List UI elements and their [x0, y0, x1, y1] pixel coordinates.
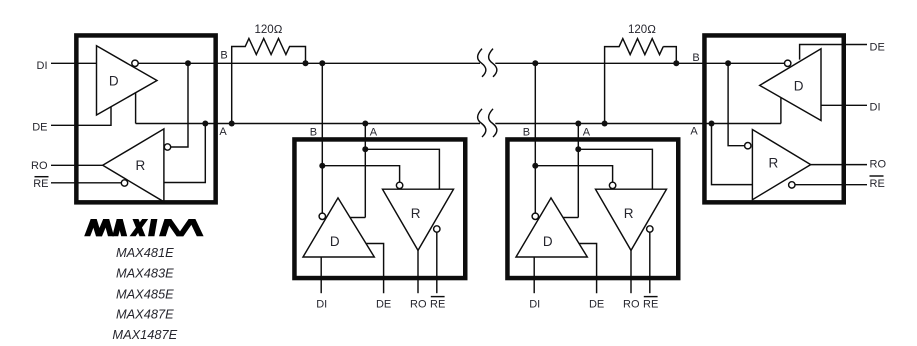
wire bus A right segment: [495, 123, 781, 125]
svg-text:DI: DI: [870, 102, 881, 114]
overline RE U4: [870, 175, 884, 177]
transceiver U3 group (copy of U2 shifted): [507, 60, 678, 310]
node R2 lead on bus A: [602, 121, 608, 127]
svg-text:120Ω: 120Ω: [628, 24, 656, 36]
node U4 B junction: [725, 60, 731, 66]
svg-text:B: B: [310, 126, 317, 138]
wire RE input U1: [51, 182, 121, 184]
overline RE pin U2: [431, 296, 445, 298]
svg-text:MAX487E: MAX487E: [116, 307, 174, 322]
svg-text:RE: RE: [33, 178, 48, 190]
node U4 A junction: [709, 121, 715, 127]
wire U4 RE: [795, 184, 867, 186]
wire U4 RO: [811, 164, 867, 166]
wire U1 internal A branch down to R: [164, 124, 205, 183]
driver D U2: [303, 198, 374, 257]
wire bus B right segment: [495, 62, 784, 64]
wire U1 D output A from slope to bus: [135, 93, 137, 124]
wire DE input U1: [51, 107, 111, 125]
svg-text:MAX1487E: MAX1487E: [112, 327, 177, 342]
wire bus A left segment: [136, 123, 480, 125]
wire U2 RO: [417, 250, 419, 293]
transceiver U1 box border: [76, 35, 215, 202]
receiver R U1: [103, 129, 164, 202]
logo letter M wide: [159, 219, 171, 236]
svg-text:120Ω: 120Ω: [254, 24, 282, 36]
transceiver U2 box border: [294, 139, 465, 278]
bubble U2 R input B: [396, 182, 402, 188]
receiver R U4: [752, 130, 810, 200]
svg-text:RO: RO: [870, 159, 887, 171]
node R2 lead on bus B: [673, 60, 679, 66]
svg-text:RO: RO: [410, 299, 427, 311]
node U2 B internal junction: [319, 163, 325, 169]
wire RO output U1: [51, 164, 103, 166]
driver D U1: [97, 46, 158, 115]
wire U2 RE: [436, 232, 438, 293]
break symbol on bus A: [478, 109, 497, 137]
wire DI input U1: [51, 62, 97, 64]
svg-text:A: A: [219, 126, 227, 138]
svg-text:DI: DI: [37, 60, 48, 72]
node R1 lead on bus A: [229, 121, 235, 127]
wire U4 A branch to R input: [712, 124, 753, 185]
svg-text:DE: DE: [32, 121, 47, 133]
logo letter X: [130, 219, 149, 236]
wire U2 A to R input: [365, 149, 439, 189]
bubble U4 D output B: [785, 60, 791, 66]
logo letter A: [112, 219, 123, 236]
svg-text:R: R: [411, 206, 421, 221]
svg-text:MAX485E: MAX485E: [116, 287, 174, 302]
logo letter I: [148, 219, 157, 236]
svg-text:RO: RO: [31, 160, 48, 172]
wire U2 B to R bubble: [322, 166, 399, 183]
svg-text:R: R: [769, 156, 779, 171]
node U2 A on bus: [362, 121, 368, 127]
transceiver U2 group: [294, 60, 465, 310]
bubble U2 R enable RE: [434, 226, 440, 232]
svg-text:D: D: [330, 234, 340, 249]
svg-text:RE: RE: [430, 299, 445, 311]
svg-text:B: B: [220, 50, 227, 62]
svg-text:A: A: [370, 126, 378, 138]
node R1 lead on bus B: [303, 60, 309, 66]
overline RE U1: [35, 176, 49, 178]
logo letter M: [84, 219, 97, 236]
transceiver U4 box border: [704, 35, 843, 202]
bubble on U1 D output B: [132, 60, 138, 66]
svg-text:MAX483E: MAX483E: [116, 266, 174, 281]
wire U1 internal B to R bubble: [171, 63, 188, 147]
wire U1 B output bubble to bus: [137, 62, 139, 64]
wire U2 A stub to D slope: [350, 217, 365, 219]
svg-text:R: R: [136, 158, 146, 173]
bubble U1 R input B: [164, 144, 170, 150]
svg-text:DE: DE: [870, 41, 885, 53]
break symbol on bus B: [478, 49, 497, 77]
svg-text:DI: DI: [316, 299, 327, 311]
logo MAXIM: [84, 219, 203, 236]
wire U4 DE: [800, 45, 867, 60]
node U2 A internal junction: [362, 146, 368, 152]
wire U2 B drop from bus to D bubble: [321, 63, 323, 213]
svg-text:RE: RE: [870, 178, 885, 190]
node U2 B on bus: [319, 60, 325, 66]
resistor R termination left 120ohm: [232, 39, 306, 124]
bubble U4 R enable RE: [789, 182, 795, 188]
svg-text:A: A: [690, 126, 698, 138]
bubble U1 R enable RE: [121, 180, 127, 186]
wire bus B left segment: [138, 62, 480, 64]
bubble U4 R input B: [745, 143, 751, 149]
svg-text:D: D: [794, 78, 804, 93]
bubble U2 D output B: [319, 213, 325, 219]
node junction U1 B out: [185, 60, 191, 66]
wire U2 DI: [320, 257, 322, 293]
driver D U4: [760, 49, 821, 121]
svg-text:MAX481E: MAX481E: [116, 245, 174, 260]
node junction U1 A out: [202, 121, 208, 127]
svg-text:DE: DE: [376, 299, 391, 311]
svg-text:D: D: [109, 74, 119, 89]
resistor R termination right 120ohm: [605, 39, 677, 124]
wire U2 A drop from bus: [364, 124, 366, 218]
receiver R U2: [383, 189, 454, 250]
wire U2 DE: [366, 244, 383, 294]
wire U4 A stub to D slope: [780, 98, 782, 124]
wire U4 B to R bubble: [728, 63, 745, 145]
wire U4 DI: [821, 104, 867, 106]
svg-text:B: B: [692, 52, 699, 64]
